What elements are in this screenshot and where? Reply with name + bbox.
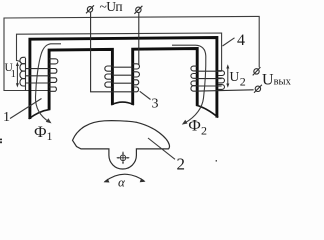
svg-text:α: α: [118, 174, 126, 189]
winding W2 primary (on middle leg): [91, 12, 140, 92]
pointer and numeral 2: [148, 138, 175, 159]
svg-text:3: 3: [152, 97, 159, 112]
core E-shaped magnetic circuit (thick): [30, 38, 217, 120]
svg-text:4: 4: [237, 32, 245, 49]
terminal Uвых bottom: [254, 85, 262, 93]
angle alpha double arrow: [104, 174, 146, 182]
svg-text:U: U: [230, 69, 240, 84]
pointer and numeral 3: [140, 91, 151, 99]
wire outer secondary loop: [4, 16, 259, 90]
flux path Ф2 (curve with arrow): [172, 45, 206, 124]
svg-text:2: 2: [201, 124, 207, 138]
pole face left leg: [29, 109, 51, 119]
svg-text:1: 1: [3, 110, 10, 125]
stray scan mark left edge: [0, 139, 2, 144]
svg-text:Ф: Ф: [188, 118, 201, 135]
svg-text:~Uп: ~Uп: [100, 0, 123, 14]
rotor armature (part 2): [73, 121, 170, 169]
flux path Ф1 (curve with arrow): [35, 44, 61, 124]
svg-text:2: 2: [177, 155, 186, 174]
wire inner series loop (winding 4 connection): [17, 33, 222, 71]
winding W1 left secondary (on left leg): [20, 57, 58, 91]
terminal Uп left: [86, 5, 94, 13]
svg-text:2: 2: [240, 74, 246, 88]
pole face middle leg: [111, 102, 134, 105]
terminal Uп right: [134, 6, 142, 14]
pointer and numeral 1: [10, 99, 42, 119]
rotor axis symbol: [116, 151, 129, 164]
terminal Uвых top: [253, 67, 261, 75]
svg-text:1: 1: [11, 69, 16, 80]
svg-text:Ф: Ф: [34, 124, 47, 141]
svg-text:1: 1: [47, 129, 53, 143]
stray speck: [216, 160, 217, 162]
winding W3 right secondary (on right leg): [191, 66, 254, 91]
pole face right leg: [196, 105, 218, 117]
pointer and numeral 4: [223, 38, 235, 46]
